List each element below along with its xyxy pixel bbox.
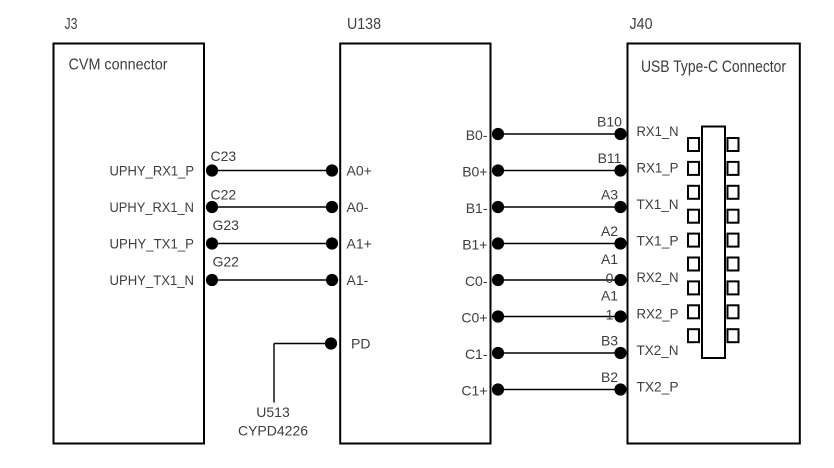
svg-text:TX1_N: TX1_N	[637, 196, 679, 212]
svg-text:TX1_P: TX1_P	[637, 233, 679, 249]
wire PD net horizontal	[274, 343, 331, 345]
svg-text:B11: B11	[598, 150, 622, 166]
junction dot U138 pin B0-	[492, 128, 504, 140]
junction dot U138 pin B1+	[492, 237, 504, 249]
wire UPHY_TX1_P to A1+	[212, 243, 332, 245]
svg-text:UPHY_TX1_P: UPHY_TX1_P	[110, 236, 195, 252]
svg-text:C1+: C1+	[461, 383, 487, 399]
connector J40 box	[628, 44, 800, 444]
wire C1- to TX2_N	[498, 352, 621, 354]
svg-text:A1: A1	[601, 251, 618, 267]
junction dot U138 pin C1+	[492, 383, 504, 395]
svg-text:1: 1	[606, 306, 614, 322]
svg-text:C0+: C0+	[461, 310, 487, 326]
svg-text:A1+: A1+	[347, 236, 372, 252]
svg-text:UPHY_RX1_P: UPHY_RX1_P	[110, 163, 195, 179]
svg-text:CYPD4226: CYPD4226	[238, 423, 308, 439]
svg-text:G22: G22	[213, 254, 240, 270]
svg-text:CVM connector: CVM connector	[69, 57, 169, 74]
junction dot U138 pin C1-	[492, 347, 504, 359]
junction dot U138 pin C0-	[492, 274, 504, 286]
connector symbol left pads	[688, 138, 699, 342]
junction dot U138 pin A1+	[326, 237, 338, 249]
svg-text:U138: U138	[347, 16, 381, 33]
wire UPHY_RX1_N to A0-	[212, 206, 332, 208]
svg-text:C0-: C0-	[465, 273, 488, 289]
svg-text:B2: B2	[601, 369, 618, 385]
IC U138 box	[340, 44, 490, 444]
junction dot J40 pin B3	[614, 347, 626, 359]
wire C0+ to RX2_P	[498, 316, 621, 318]
junction dot U138 pin A0-	[326, 201, 338, 213]
svg-text:A3: A3	[601, 187, 618, 203]
junction dot U138 pin B0+	[492, 164, 504, 176]
svg-text:B1-: B1-	[466, 200, 488, 216]
svg-text:G23: G23	[213, 217, 240, 233]
junction dot J40 pin A3	[614, 201, 626, 213]
junction dot U138 pin A0+	[326, 164, 338, 176]
svg-text:A2: A2	[601, 223, 618, 239]
svg-text:B0-: B0-	[466, 127, 488, 143]
svg-text:A0+: A0+	[347, 163, 372, 179]
svg-text:J3: J3	[65, 16, 78, 33]
junction dot J3 pin C22	[206, 201, 218, 213]
svg-text:0: 0	[606, 270, 614, 286]
svg-text:RX1_N: RX1_N	[637, 123, 679, 139]
svg-text:PD: PD	[351, 336, 370, 352]
junction dot J3 pin C23	[206, 164, 218, 176]
junction dot J40 pin B2	[614, 383, 626, 395]
junction dot U138 pin C0+	[492, 310, 504, 322]
wire C0- to RX2_N	[498, 279, 621, 281]
svg-text:RX2_N: RX2_N	[637, 269, 679, 285]
svg-text:RX2_P: RX2_P	[637, 306, 679, 322]
junction dot J40 pin A11	[614, 310, 626, 322]
svg-text:C23: C23	[211, 148, 237, 164]
svg-text:USB Type-C Connector: USB Type-C Connector	[641, 57, 786, 76]
svg-text:B10: B10	[597, 114, 622, 130]
connector symbol right pads	[728, 138, 739, 342]
svg-text:TX2_P: TX2_P	[637, 379, 679, 395]
svg-text:U513: U513	[256, 404, 290, 420]
junction dot U138 pin A1-	[326, 274, 338, 286]
wire UPHY_RX1_P to A0+	[212, 170, 332, 172]
wire B0+ to RX1_P	[498, 170, 621, 172]
wire PD net vertical	[273, 344, 275, 403]
junction dot U138 pin B1-	[492, 201, 504, 213]
junction dot J40 pin B10	[614, 128, 626, 140]
svg-text:A0-: A0-	[347, 199, 369, 215]
svg-text:J40: J40	[630, 16, 653, 33]
svg-text:TX2_N: TX2_N	[637, 342, 679, 358]
wire B1- to TX1_N	[498, 206, 621, 208]
junction dot U138 pin PD	[325, 337, 337, 349]
wire B0- to RX1_N	[498, 133, 621, 135]
wire C1+ to TX2_P	[498, 389, 621, 391]
svg-text:UPHY_TX1_N: UPHY_TX1_N	[110, 272, 195, 288]
svg-text:B3: B3	[601, 333, 618, 349]
svg-text:B0+: B0+	[462, 164, 487, 180]
junction dot J40 pin A10	[614, 274, 626, 286]
junction dot J3 pin G22	[206, 274, 218, 286]
svg-text:RX1_P: RX1_P	[637, 160, 679, 176]
junction dot J40 pin B11	[614, 164, 626, 176]
USB type-C connector symbol body	[702, 127, 725, 359]
svg-text:C22: C22	[211, 187, 237, 203]
junction dot J3 pin G23	[206, 237, 218, 249]
svg-text:UPHY_RX1_N: UPHY_RX1_N	[110, 199, 195, 215]
wire UPHY_TX1_N to A1-	[212, 279, 332, 281]
svg-text:B1+: B1+	[462, 237, 487, 253]
junction dot J40 pin A2	[614, 237, 626, 249]
svg-text:A1: A1	[601, 288, 618, 304]
wire B1+ to TX1_P	[498, 243, 621, 245]
svg-text:A1-: A1-	[347, 272, 369, 288]
connector J3 box	[54, 44, 205, 444]
svg-text:C1-: C1-	[465, 346, 488, 362]
